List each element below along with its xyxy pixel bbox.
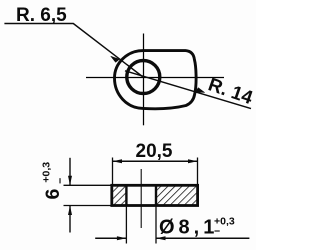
svg-text:−: − xyxy=(214,226,220,238)
svg-text:Ø8,1: Ø8,1 xyxy=(159,217,218,239)
svg-text:20,5: 20,5 xyxy=(136,141,173,162)
svg-text:R. 14: R. 14 xyxy=(205,74,255,109)
svg-text:+0,3: +0,3 xyxy=(41,162,53,183)
svg-text:R. 6,5: R. 6,5 xyxy=(16,5,67,26)
svg-text:−: − xyxy=(55,178,67,184)
svg-text:6: 6 xyxy=(42,189,64,200)
